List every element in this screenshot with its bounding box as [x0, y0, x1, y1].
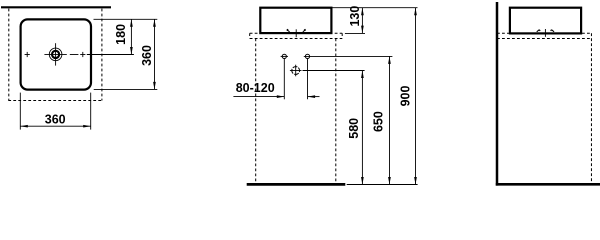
- dimension 580 text: [347, 118, 361, 139]
- svg-text:180: 180: [114, 24, 128, 45]
- side view: faucet right tick: [551, 30, 554, 32]
- extension lines for 80-120 dim: [284, 59, 307, 99]
- plan view: drain outer circle: [49, 48, 62, 61]
- dimension 900 text: [398, 86, 412, 107]
- dimension 360 bottom line with arrows: [20, 125, 90, 128]
- front view: right supply connection circle: [305, 54, 309, 58]
- plan view: drain inner circle: [52, 51, 59, 58]
- svg-text:80-120: 80-120: [236, 81, 275, 95]
- front view: faucet centre tick: [295, 29, 297, 37]
- front view: faucet right tick: [303, 29, 306, 32]
- extension line supplies to 650 dim: [304, 55, 393, 57]
- svg-text:900: 900: [398, 86, 412, 107]
- dimension 130 text: [348, 6, 362, 27]
- extension line drain to 580 dim: [303, 70, 365, 72]
- svg-text:580: 580: [347, 118, 361, 139]
- front view: left supply connection circle: [281, 54, 288, 58]
- dimension 650 line with arrows: [388, 56, 391, 184]
- front view: pedestal right dashed line: [335, 39, 337, 184]
- svg-text:650: 650: [371, 111, 385, 132]
- dimension 80-120 text: [236, 81, 275, 95]
- plan view: drain crosshair: [44, 43, 66, 65]
- dimension 360 right text: [140, 45, 154, 66]
- front view: floor line: [247, 183, 346, 186]
- side view: faucet centre tick: [544, 29, 546, 37]
- dimension 360 bottom text: [45, 112, 66, 126]
- plan view: basin outline: [21, 19, 91, 89]
- plan view: centerline dash segment: [70, 54, 79, 56]
- extension line basin rim to 900 dim: [333, 7, 418, 9]
- front view: basin rectangle: [260, 8, 331, 33]
- svg-text:130: 130: [348, 6, 362, 27]
- plan view: right faucet mark plus: [80, 52, 85, 57]
- side view: basin rectangle: [510, 8, 581, 34]
- side view: faucet left tick: [537, 30, 540, 32]
- extension line countertop surface for 130 dim: [345, 32, 365, 34]
- plan view: extension line basin bottom edge: [94, 88, 158, 90]
- side view: wall line: [496, 2, 499, 186]
- dimension 360 right line with arrows: [153, 19, 156, 89]
- svg-text:360: 360: [140, 45, 154, 66]
- dimension 130 line with arrows: [361, 8, 364, 33]
- front view: pedestal left dashed line: [255, 39, 257, 184]
- plan view: left faucet mark plus: [25, 52, 30, 57]
- dimension 180 line with arrows: [130, 19, 133, 54]
- plan view: wall line: [1, 6, 111, 8]
- side view: floor line: [496, 183, 600, 186]
- front view: dashed countertop slab: [250, 33, 343, 38]
- dimension 80-120 line with arrows: [233, 95, 319, 98]
- plan bottom dimension extension lines: [20, 93, 90, 130]
- floor extension line to 900 dim: [347, 184, 418, 186]
- dimension 580 line with arrows: [361, 71, 364, 185]
- dimension 650 text: [371, 111, 385, 132]
- front view: faucet left tick: [287, 29, 290, 32]
- dimension 180 text: [114, 24, 128, 45]
- side view: dashed right edge to floor: [590, 33, 592, 183]
- plan view: dashed countertop outline: [8, 9, 102, 101]
- plan view: extension line basin top edge: [94, 18, 158, 20]
- dimension 900 line with arrows: [414, 8, 417, 185]
- plan view: centerline extension to 180 dim: [87, 54, 134, 56]
- side view: dashed countertop slab: [497, 33, 591, 38]
- front view: drain symbol: [290, 65, 302, 77]
- svg-text:360: 360: [45, 112, 66, 126]
